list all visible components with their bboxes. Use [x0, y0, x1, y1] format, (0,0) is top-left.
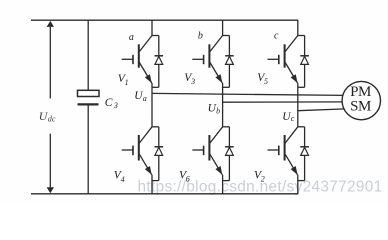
- svg-text:1: 1: [125, 78, 129, 87]
- label V2: [254, 170, 265, 184]
- transistor V4 (lower IGBT, leg a): [122, 127, 152, 175]
- svg-text:b: b: [198, 31, 203, 42]
- label V3: [184, 72, 195, 86]
- svg-text:3: 3: [190, 77, 195, 86]
- svg-text:C: C: [105, 97, 113, 109]
- label V4: [114, 170, 125, 184]
- svg-text:2: 2: [261, 175, 265, 184]
- wire: V4 emitter to bottom bus: [151, 175, 153, 194]
- label V1: [118, 73, 129, 87]
- wire: V2 emitter to bottom bus: [297, 175, 299, 194]
- label C3: [105, 97, 118, 110]
- transistor V1 (upper IGBT, leg a): [122, 36, 152, 84]
- wire: phase a output Ua to motor: [152, 93, 345, 95]
- label Udc: [39, 109, 56, 124]
- wire: phase node c (leg mid vertical): [297, 83, 299, 127]
- label V5: [257, 72, 268, 86]
- svg-text:5: 5: [264, 77, 268, 86]
- label V6: [179, 170, 190, 184]
- wire: top bus to capacitor C3: [87, 20, 89, 90]
- svg-text:c: c: [274, 31, 279, 42]
- svg-text:a: a: [129, 32, 134, 43]
- freewheeling diode of V3: [223, 36, 234, 88]
- svg-text:3: 3: [113, 101, 118, 110]
- freewheeling diode of V5: [298, 36, 309, 88]
- transistor V6 (lower IGBT, leg b): [192, 127, 222, 175]
- capacitor C3 (polarized: box plate + bar plate): [78, 90, 100, 104]
- node Ua label: [134, 90, 147, 103]
- node Uc label: [282, 111, 295, 123]
- wire: phase b output Ub to motor: [223, 101, 345, 103]
- bottom DC bus wire (-): [31, 193, 298, 195]
- node Ub label: [208, 102, 221, 115]
- transistor V2 (lower IGBT, leg c): [268, 127, 298, 175]
- freewheeling diode of V4: [152, 127, 163, 181]
- freewheeling diode of V6: [223, 127, 234, 181]
- svg-text:c: c: [291, 114, 295, 123]
- transistor V3 (upper IGBT, leg b): [192, 36, 222, 84]
- wire: top bus to leg c upper junction: [297, 20, 299, 35]
- wire: top bus to leg b upper junction: [222, 20, 224, 35]
- svg-text:6: 6: [186, 175, 190, 184]
- transistor V5 (upper IGBT, leg c): [268, 36, 298, 84]
- svg-text:dc: dc: [48, 114, 56, 123]
- wire: phase c output Uc to motor: [298, 109, 345, 111]
- top DC bus wire (+): [31, 19, 298, 21]
- motor PM/SM (permanent magnet synchronous machine): [342, 81, 380, 119]
- freewheeling diode of V2: [298, 127, 309, 181]
- Udc voltage arrow (double-headed dimension line): [47, 21, 54, 193]
- wire: phase node b (leg mid vertical): [222, 83, 224, 127]
- wire: top bus to leg a upper junction: [151, 20, 153, 35]
- svg-text:4: 4: [121, 175, 125, 184]
- wire: capacitor C3 to bottom bus: [87, 104, 89, 193]
- wire: V6 emitter to bottom bus: [222, 175, 224, 194]
- wire: phase node a (leg mid vertical): [151, 83, 153, 127]
- svg-text:b: b: [216, 106, 220, 115]
- freewheeling diode of V1: [152, 36, 163, 88]
- svg-text:a: a: [143, 94, 147, 103]
- svg-text:SM: SM: [350, 99, 371, 115]
